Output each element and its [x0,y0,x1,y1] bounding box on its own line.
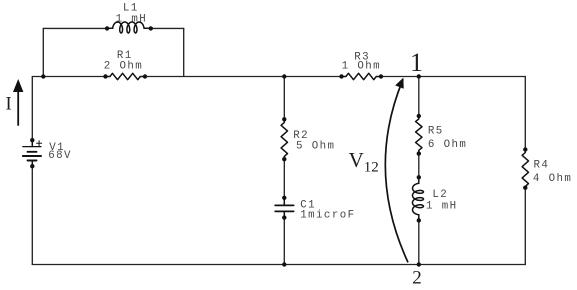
wire top rail left segment [32,76,105,78]
junction node R5 bottom [417,151,421,155]
svg-text:R4: R4 [534,160,550,172]
junction node C1 top [282,196,286,200]
wire L1 loop top left [43,27,107,29]
wire top rail middle segment [145,76,342,78]
inductor L2 [413,183,424,215]
svg-text:1: 1 [410,48,423,77]
svg-text:1 mH: 1 mH [426,200,458,212]
battery V1 plus sign [37,141,42,146]
svg-text:1microF: 1microF [300,209,355,221]
wire node1 branch lower [418,220,420,264]
wire left rail lower [31,166,33,264]
voltage arrow V12 [385,78,408,263]
svg-text:6 Ohm: 6 Ohm [428,139,467,151]
wire middle branch upper [283,77,285,120]
wire left rail upper [31,77,33,141]
svg-text:1 mH: 1 mH [116,13,148,25]
svg-text:4 Ohm: 4 Ohm [533,173,572,185]
wire L2 top lead [418,177,420,183]
svg-text:68V: 68V [48,150,72,162]
wire node1 branch upper [418,77,420,117]
resistor R5 [416,116,422,153]
capacitor C1 [275,198,293,218]
wire bottom rail [32,264,525,266]
wire node1 branch between R5 and L2 [418,154,420,178]
svg-text:2 Ohm: 2 Ohm [104,60,143,72]
junction node V1 bottom [30,164,34,168]
wire middle branch between R2 and C1 [283,159,285,198]
resistor R3 [342,73,381,79]
current arrow I [13,79,23,126]
wire L1 loop top right [151,27,184,29]
svg-text:1 Ohm: 1 Ohm [342,61,381,73]
junction node R1 right [143,74,147,78]
junction node V1 top [30,138,34,142]
node 1 junction [417,74,421,78]
inductor L1 [107,27,113,29]
junction node L1 left [105,26,109,30]
wire L2 bottom lead [418,215,420,221]
resistor R4 [522,150,528,190]
junction node at top-left of L1 loop [41,74,45,78]
wire right rail lower [524,188,526,265]
junction node R2 top [282,117,286,121]
svg-text:I: I [6,94,12,114]
junction node R3 left [339,74,343,78]
junction node L2 bottom [417,218,421,222]
junction node L2 top [417,175,421,179]
junction node R2 bottom [282,157,286,161]
junction node middle branch bottom [282,262,286,266]
junction node C1 bottom [282,215,286,219]
junction node L1 right [149,26,153,30]
svg-text:5 Ohm: 5 Ohm [296,140,335,152]
wire L1 loop right vertical [183,28,185,76]
svg-text:L2: L2 [432,189,448,201]
junction node R3 right [379,74,383,78]
battery V1 [23,140,41,166]
node 2 junction [417,262,421,266]
junction node middle branch top [282,74,286,78]
junction node R1 left [103,74,107,78]
svg-text:V12: V12 [349,148,379,176]
wire right rail upper [524,77,526,150]
junction node R4 top [523,147,527,151]
wire middle branch lower [283,218,285,265]
wire top rail right segment [381,76,525,78]
junction node R4 bottom [523,186,527,190]
resistor R2 [281,119,287,159]
svg-text:2: 2 [412,267,422,288]
junction node R5 top [417,114,421,118]
wire L1 loop left vertical [42,28,44,76]
svg-text:R5: R5 [428,125,444,137]
resistor R1 [106,73,145,79]
